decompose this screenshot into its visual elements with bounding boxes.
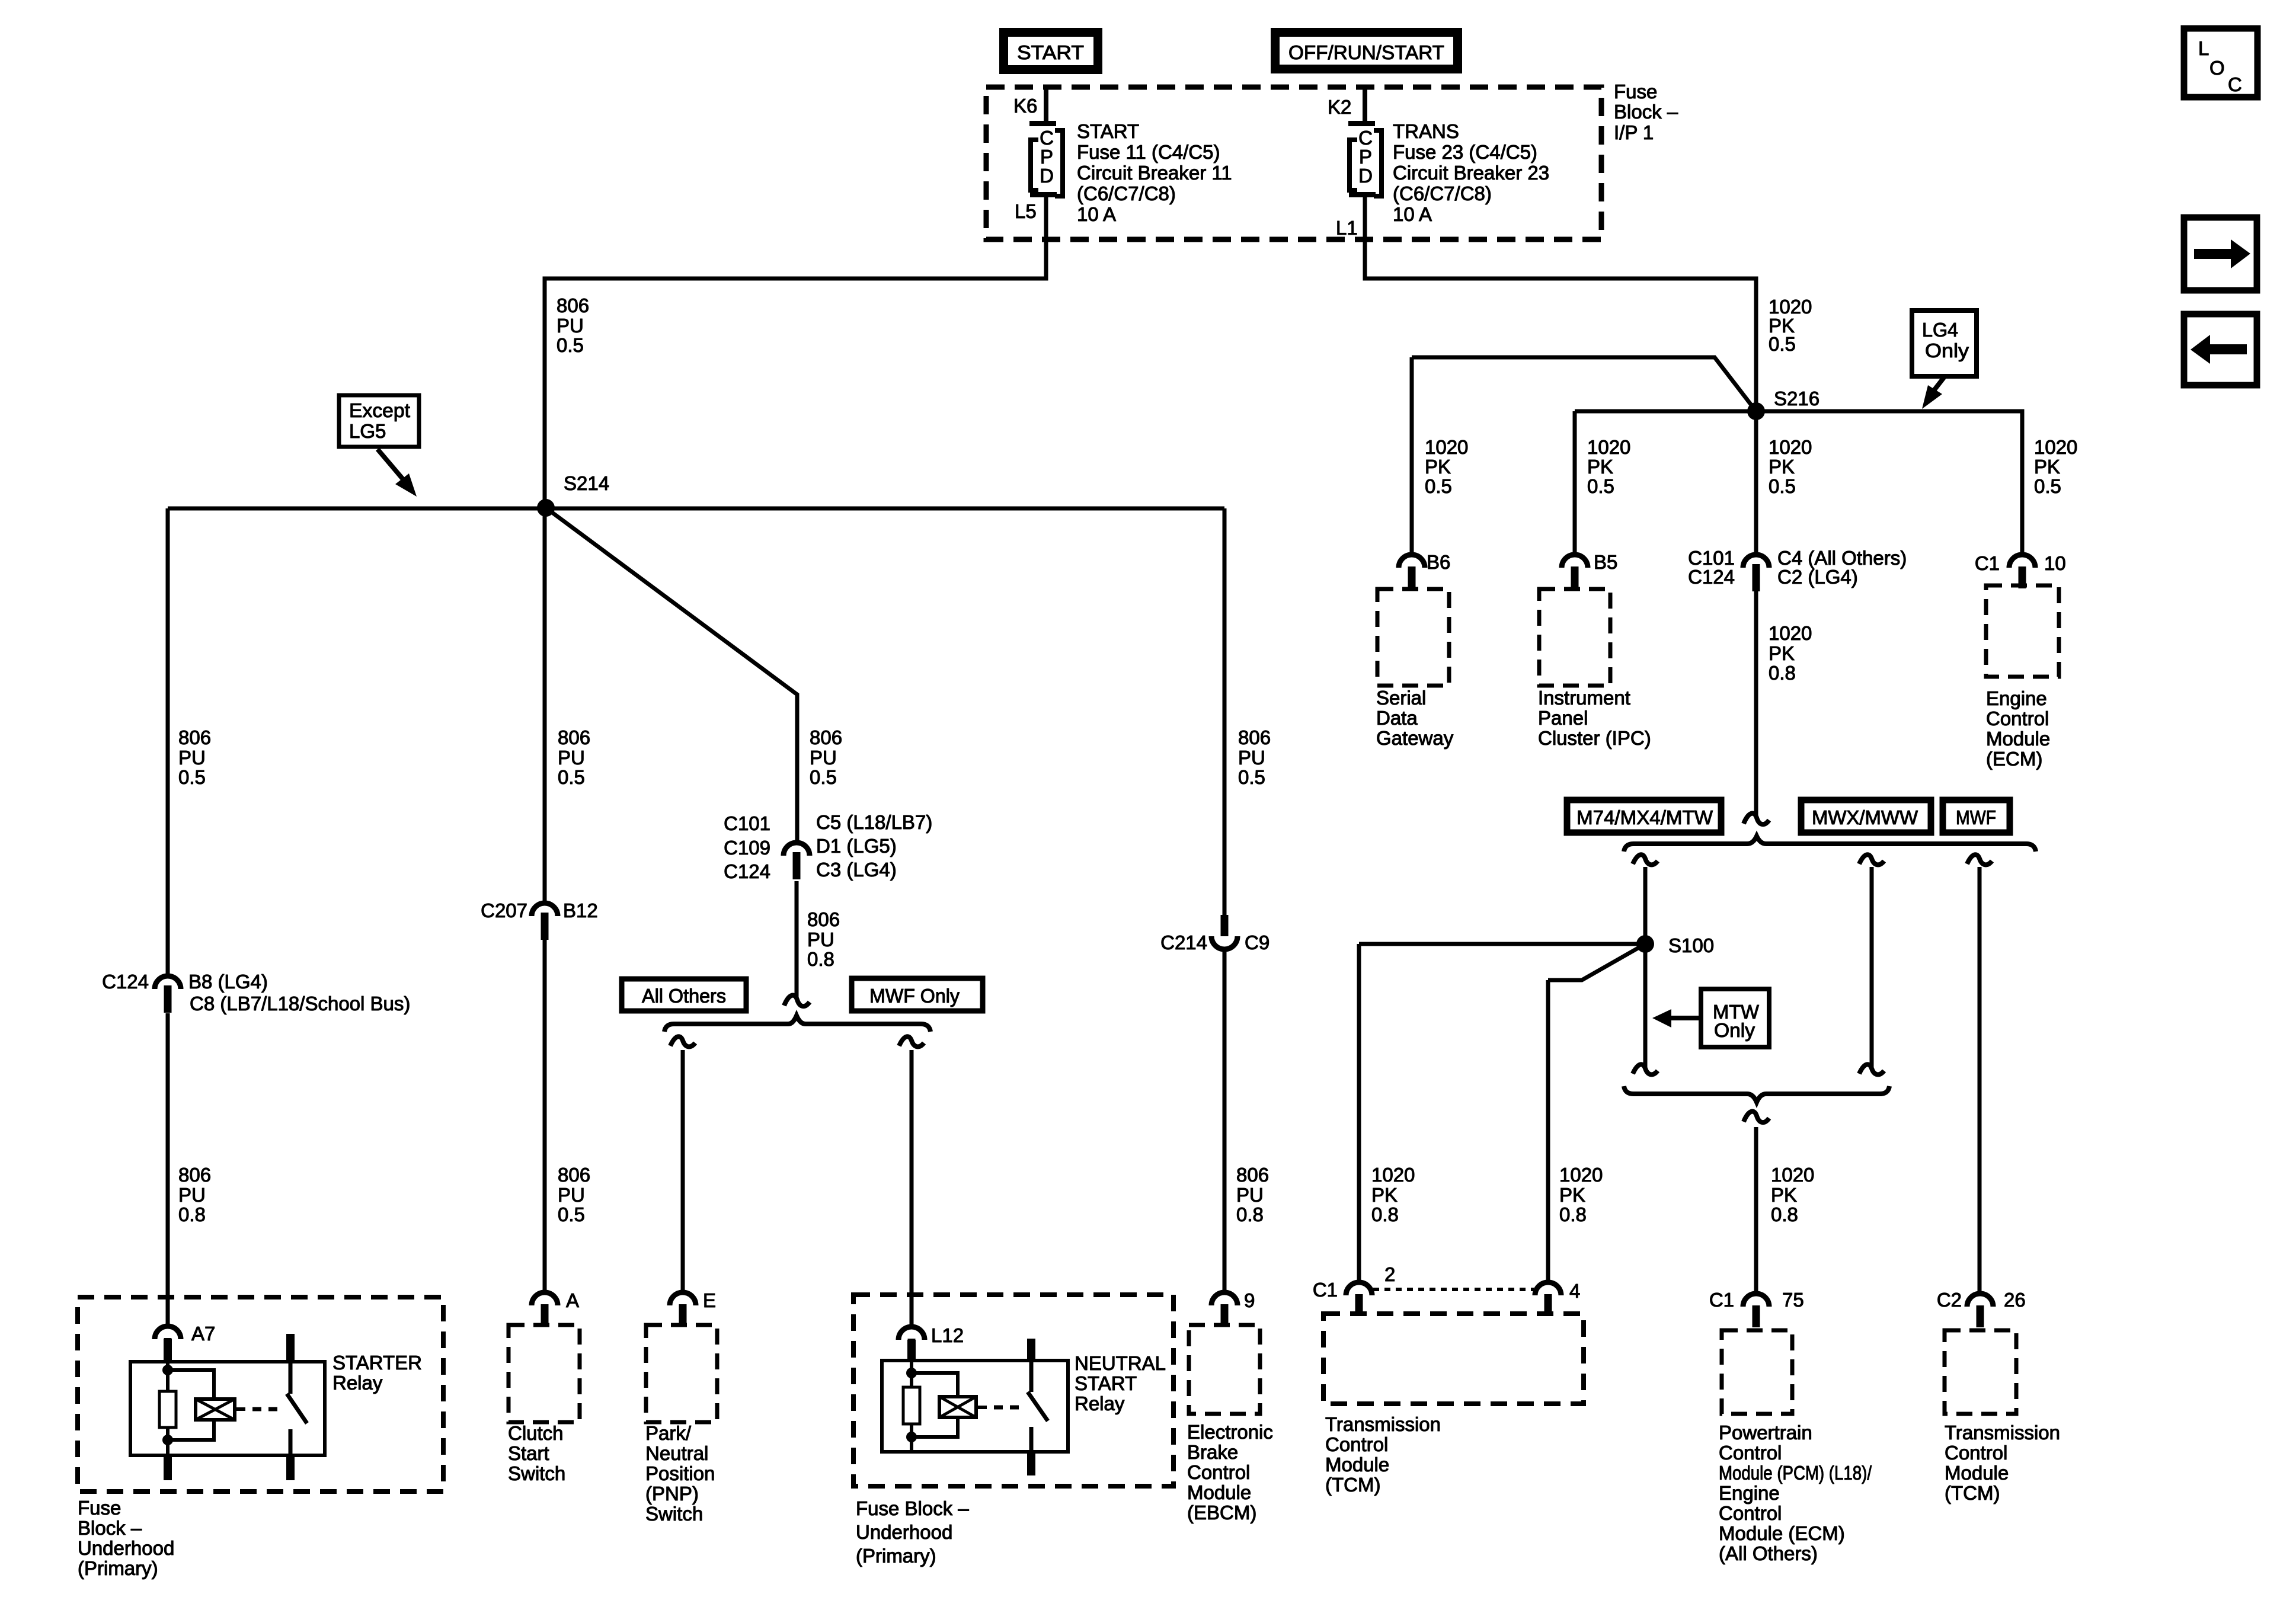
svg-text:0.8: 0.8 xyxy=(807,948,834,970)
svg-text:LG5: LG5 xyxy=(349,420,386,442)
svg-text:D1 (LG5): D1 (LG5) xyxy=(816,835,897,857)
svg-text:75: 75 xyxy=(1782,1289,1804,1311)
svg-text:0.5: 0.5 xyxy=(558,766,585,788)
svg-text:S100: S100 xyxy=(1668,934,1714,956)
svg-text:0.8: 0.8 xyxy=(1236,1204,1264,1225)
svg-text:0.5: 0.5 xyxy=(558,1204,585,1225)
svg-text:(PNP): (PNP) xyxy=(645,1483,699,1505)
svg-text:S214: S214 xyxy=(564,472,609,494)
svg-text:0.5: 0.5 xyxy=(2034,475,2061,497)
svg-text:C: C xyxy=(2228,73,2242,95)
svg-text:All Others: All Others xyxy=(642,985,726,1007)
svg-text:MWX/MWW: MWX/MWW xyxy=(1812,806,1918,828)
svg-text:I/P 1: I/P 1 xyxy=(1614,121,1654,143)
svg-text:10 A: 10 A xyxy=(1393,203,1432,225)
svg-text:C2 (LG4): C2 (LG4) xyxy=(1777,566,1858,588)
svg-text:Fuse 23 (C4/C5): Fuse 23 (C4/C5) xyxy=(1393,141,1537,163)
svg-text:PU: PU xyxy=(178,747,206,769)
svg-text:806: 806 xyxy=(1236,1164,1269,1186)
svg-text:PK: PK xyxy=(1771,1184,1797,1206)
svg-text:PK: PK xyxy=(1769,456,1795,478)
svg-text:Module (PCM) (L18)/: Module (PCM) (L18)/ xyxy=(1719,1462,1872,1484)
svg-text:C5 (L18/LB7): C5 (L18/LB7) xyxy=(816,811,932,833)
svg-text:0.8: 0.8 xyxy=(1771,1204,1798,1225)
svg-text:PU: PU xyxy=(558,1184,585,1206)
svg-text:Fuse 11 (C4/C5): Fuse 11 (C4/C5) xyxy=(1077,141,1220,163)
svg-text:TRANS: TRANS xyxy=(1393,120,1459,142)
svg-text:0.5: 0.5 xyxy=(1769,475,1796,497)
svg-text:PU: PU xyxy=(1238,747,1265,769)
svg-text:M74/MX4/MTW: M74/MX4/MTW xyxy=(1576,806,1713,828)
svg-text:Circuit Breaker 23: Circuit Breaker 23 xyxy=(1393,162,1549,184)
svg-text:L5: L5 xyxy=(1015,200,1037,222)
svg-text:PK: PK xyxy=(1769,642,1795,664)
svg-text:NEUTRAL: NEUTRAL xyxy=(1075,1352,1166,1374)
svg-text:B6: B6 xyxy=(1427,551,1450,573)
svg-text:(TCM): (TCM) xyxy=(1325,1474,1380,1496)
svg-text:Fuse: Fuse xyxy=(78,1497,121,1519)
svg-text:K2: K2 xyxy=(1328,96,1351,118)
svg-text:Module: Module xyxy=(1187,1481,1251,1503)
svg-text:Switch: Switch xyxy=(508,1462,565,1484)
svg-text:0.5: 0.5 xyxy=(178,766,206,788)
svg-text:806: 806 xyxy=(558,726,590,748)
svg-text:C3 (LG4): C3 (LG4) xyxy=(816,859,897,881)
svg-text:C1: C1 xyxy=(1975,552,2000,574)
svg-text:C124: C124 xyxy=(724,860,770,882)
svg-text:Panel: Panel xyxy=(1538,707,1588,729)
svg-text:B12: B12 xyxy=(563,900,598,921)
svg-text:(Primary): (Primary) xyxy=(78,1557,158,1579)
svg-text:0.5: 0.5 xyxy=(1425,475,1452,497)
svg-text:Control: Control xyxy=(1719,1502,1782,1524)
svg-text:Cluster (IPC): Cluster (IPC) xyxy=(1538,727,1651,749)
svg-text:Module: Module xyxy=(1945,1462,2009,1484)
svg-text:(ECM): (ECM) xyxy=(1986,748,2042,770)
svg-text:Underhood: Underhood xyxy=(856,1521,952,1543)
svg-text:Control: Control xyxy=(1945,1442,2007,1464)
svg-text:Position: Position xyxy=(645,1462,715,1484)
svg-text:Brake: Brake xyxy=(1187,1441,1238,1463)
svg-text:Start: Start xyxy=(508,1442,549,1464)
svg-text:OFF/RUN/START: OFF/RUN/START xyxy=(1288,41,1444,63)
svg-text:(EBCM): (EBCM) xyxy=(1187,1502,1256,1523)
svg-text:L1: L1 xyxy=(1336,217,1358,239)
svg-text:PU: PU xyxy=(558,747,585,769)
svg-text:1020: 1020 xyxy=(1771,1164,1814,1186)
svg-text:D: D xyxy=(1040,165,1054,187)
svg-text:PK: PK xyxy=(2034,456,2060,478)
svg-text:0.5: 0.5 xyxy=(1769,333,1796,355)
svg-text:Module (ECM): Module (ECM) xyxy=(1719,1522,1845,1544)
svg-text:Relay: Relay xyxy=(1075,1393,1125,1414)
svg-text:C207: C207 xyxy=(481,900,527,921)
svg-text:PU: PU xyxy=(810,747,837,769)
svg-text:806: 806 xyxy=(810,726,842,748)
svg-text:Serial: Serial xyxy=(1376,687,1426,709)
svg-text:Control: Control xyxy=(1325,1433,1388,1455)
svg-text:(C6/C7/C8): (C6/C7/C8) xyxy=(1077,183,1176,204)
svg-text:C8 (LB7/L18/School Bus): C8 (LB7/L18/School Bus) xyxy=(190,993,410,1014)
svg-text:Module: Module xyxy=(1986,728,2050,750)
svg-text:0.5: 0.5 xyxy=(810,766,837,788)
svg-text:2: 2 xyxy=(1384,1263,1395,1285)
svg-text:Relay: Relay xyxy=(332,1372,383,1394)
svg-text:A7: A7 xyxy=(191,1323,215,1345)
svg-text:O: O xyxy=(2209,57,2225,79)
svg-text:Circuit Breaker 11: Circuit Breaker 11 xyxy=(1077,162,1232,184)
svg-text:PU: PU xyxy=(1236,1184,1264,1206)
svg-text:Electronic: Electronic xyxy=(1187,1421,1273,1443)
svg-text:C1: C1 xyxy=(1709,1289,1734,1311)
svg-text:806: 806 xyxy=(178,726,211,748)
svg-text:(Primary): (Primary) xyxy=(856,1545,936,1567)
svg-text:MWF: MWF xyxy=(1956,806,1996,828)
svg-text:C109: C109 xyxy=(724,837,770,859)
svg-text:806: 806 xyxy=(178,1164,211,1186)
svg-text:0.8: 0.8 xyxy=(1769,662,1796,684)
svg-text:Control: Control xyxy=(1187,1461,1250,1483)
svg-text:PK: PK xyxy=(1559,1184,1585,1206)
svg-text:C214: C214 xyxy=(1160,932,1207,953)
svg-text:START: START xyxy=(1017,41,1084,63)
svg-text:0.5: 0.5 xyxy=(1238,766,1265,788)
svg-text:0.5: 0.5 xyxy=(1587,475,1614,497)
svg-text:B5: B5 xyxy=(1594,551,1617,573)
svg-text:806: 806 xyxy=(557,295,589,316)
svg-text:10: 10 xyxy=(2044,552,2066,574)
svg-text:Transmission: Transmission xyxy=(1945,1422,2060,1443)
svg-text:Instrument: Instrument xyxy=(1538,687,1630,709)
svg-text:806: 806 xyxy=(558,1164,590,1186)
svg-text:MWF Only: MWF Only xyxy=(869,985,960,1007)
svg-text:A: A xyxy=(566,1289,579,1311)
svg-text:0.5: 0.5 xyxy=(557,334,584,356)
svg-text:(All Others): (All Others) xyxy=(1719,1542,1818,1564)
svg-text:L12: L12 xyxy=(931,1324,964,1346)
svg-text:Block –: Block – xyxy=(78,1517,142,1539)
svg-text:0.8: 0.8 xyxy=(1559,1204,1587,1225)
svg-text:Only: Only xyxy=(1925,340,1969,361)
svg-text:1020: 1020 xyxy=(1769,436,1812,458)
svg-text:START: START xyxy=(1077,120,1139,142)
svg-text:Control: Control xyxy=(1986,708,2049,729)
svg-text:1020: 1020 xyxy=(1425,436,1468,458)
svg-text:D: D xyxy=(1358,165,1373,187)
svg-text:(C6/C7/C8): (C6/C7/C8) xyxy=(1393,183,1492,204)
svg-text:Only: Only xyxy=(1714,1019,1755,1041)
svg-text:PK: PK xyxy=(1587,456,1613,478)
svg-text:Engine: Engine xyxy=(1986,687,2047,709)
svg-text:STARTER: STARTER xyxy=(332,1352,422,1374)
svg-text:LG4: LG4 xyxy=(1922,319,1958,341)
svg-text:Neutral: Neutral xyxy=(645,1442,708,1464)
svg-text:0.8: 0.8 xyxy=(1371,1204,1399,1225)
svg-text:Except: Except xyxy=(349,399,410,421)
svg-text:10 A: 10 A xyxy=(1077,203,1116,225)
svg-text:C1: C1 xyxy=(1313,1279,1338,1301)
svg-text:C124: C124 xyxy=(1688,566,1735,588)
svg-text:B8 (LG4): B8 (LG4) xyxy=(188,971,268,993)
svg-text:806: 806 xyxy=(807,908,840,930)
svg-text:PU: PU xyxy=(557,315,584,337)
svg-text:Gateway: Gateway xyxy=(1376,727,1454,749)
svg-text:Control: Control xyxy=(1719,1442,1782,1464)
svg-text:K6: K6 xyxy=(1013,95,1037,117)
svg-text:(TCM): (TCM) xyxy=(1945,1482,2000,1504)
svg-text:C124: C124 xyxy=(102,971,149,993)
svg-text:Powertrain: Powertrain xyxy=(1719,1422,1812,1443)
svg-text:Data: Data xyxy=(1376,707,1418,729)
svg-text:E: E xyxy=(703,1289,716,1311)
svg-text:START: START xyxy=(1075,1372,1137,1394)
svg-text:C2: C2 xyxy=(1937,1289,1962,1311)
svg-text:C101: C101 xyxy=(724,812,770,834)
svg-text:1020: 1020 xyxy=(1769,622,1812,644)
svg-text:1020: 1020 xyxy=(1559,1164,1603,1186)
svg-text:Engine: Engine xyxy=(1719,1482,1780,1504)
svg-text:Block –: Block – xyxy=(1614,101,1678,123)
svg-text:1020: 1020 xyxy=(1587,436,1630,458)
svg-text:9: 9 xyxy=(1244,1289,1255,1311)
svg-text:Module: Module xyxy=(1325,1454,1389,1475)
svg-text:S216: S216 xyxy=(1774,388,1819,409)
svg-text:Fuse: Fuse xyxy=(1614,81,1657,103)
svg-text:PU: PU xyxy=(807,929,834,950)
svg-text:Switch: Switch xyxy=(645,1503,703,1525)
svg-text:PK: PK xyxy=(1371,1184,1398,1206)
svg-text:0.8: 0.8 xyxy=(178,1204,206,1225)
svg-text:Park/: Park/ xyxy=(645,1422,692,1444)
svg-text:PU: PU xyxy=(178,1184,206,1206)
svg-text:Transmission: Transmission xyxy=(1325,1413,1441,1435)
svg-text:4: 4 xyxy=(1569,1280,1580,1302)
svg-text:C9: C9 xyxy=(1245,932,1269,953)
svg-text:Clutch: Clutch xyxy=(508,1422,564,1444)
svg-text:1020: 1020 xyxy=(2034,436,2077,458)
svg-text:Underhood: Underhood xyxy=(78,1537,174,1559)
svg-text:PK: PK xyxy=(1425,456,1451,478)
svg-text:806: 806 xyxy=(1238,726,1271,748)
svg-text:26: 26 xyxy=(2004,1289,2026,1311)
svg-text:1020: 1020 xyxy=(1371,1164,1415,1186)
svg-text:L: L xyxy=(2198,37,2209,59)
svg-text:Fuse Block –: Fuse Block – xyxy=(856,1497,969,1519)
